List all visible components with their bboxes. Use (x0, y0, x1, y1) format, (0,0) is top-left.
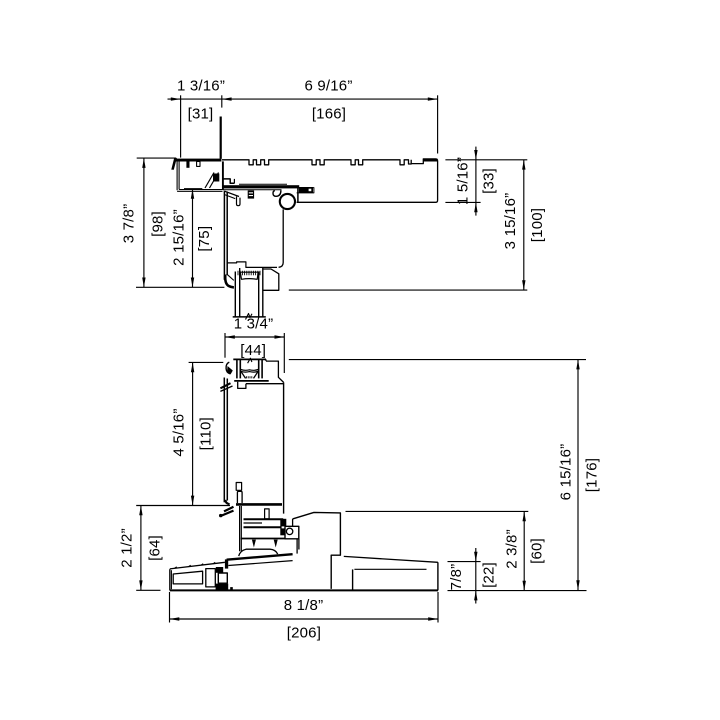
sill deck outer thick (227, 554, 293, 560)
arrow down at (140.9,590.2) (139, 580, 142, 590)
glass pane 2 (two faces) (258, 272, 260, 317)
leaf glazing box right (266, 361, 284, 382)
arrow right at (284.3,337) (275, 335, 285, 338)
arrow down at (192.6,505.4) (191, 496, 194, 506)
roller bar bottom thick (244, 526, 284, 528)
track bar thin bottom line (223, 189, 282, 191)
glass pane 1 column (236, 359, 238, 378)
arrow up at (475.8,590.6) (474, 591, 477, 601)
track hump (239, 549, 278, 556)
nose cavity 2 (206, 569, 216, 587)
fitting outline extension (297, 188, 314, 193)
connector vertical x297.9 (297, 188, 299, 202)
sill nose left edge double (169, 569, 171, 590)
dim 3 7/8 vertical x143.9 (143, 158, 145, 287)
svg-text:4 5/16”: 4 5/16” (170, 408, 187, 456)
arrow right at (438,619) (428, 617, 438, 620)
arrow up at (578,359.6) (576, 360, 579, 370)
sill nose top slope (170, 562, 225, 569)
leaf spring block (dark) (248, 190, 254, 198)
leaf bottom left cap curve (225, 500, 229, 504)
glazing bead box (263, 269, 278, 290)
extension line x180.6 (180, 95, 182, 157)
track dark mass lower (216, 584, 229, 590)
left main line y158.1 (137, 157, 176, 159)
svg-text:[98]: [98] (149, 211, 166, 237)
leaf bottom fin 1 (224, 507, 234, 512)
arrow right at (437.6,99.1) (428, 97, 438, 100)
hook curl (226, 362, 230, 374)
track white box (218, 573, 227, 583)
bolt circle (286, 528, 292, 534)
leaf bottom gasket (thick curve) (225, 275, 234, 288)
arrow down at (475.8,561.6) (474, 552, 477, 562)
svg-text:[64]: [64] (146, 535, 163, 561)
frame fin (diagonal) (171, 158, 177, 170)
hook flap diagonal thick (220, 383, 230, 388)
svg-text:[75]: [75] (196, 226, 213, 252)
chamber notch (238, 382, 246, 389)
arrow down at (578,590.1) (576, 580, 579, 590)
head plate with notches (222, 160, 411, 165)
arrow up at (475.9,202.4) (474, 202, 477, 212)
svg-text:[166]: [166] (312, 105, 346, 122)
arrow left at (221.8,99.1) (222, 97, 232, 100)
svg-text:[33]: [33] (481, 168, 498, 194)
arrow down at (143.9,287.3) (142, 278, 145, 288)
head plate shallow notch + raised right end (297, 159, 438, 202)
frame C-channel left wall (176, 161, 178, 190)
glass edge box above slot (236, 483, 241, 491)
arrow up at (192.5,189) (191, 189, 194, 199)
ext line x169.5 bottom (169, 592, 171, 623)
fitting notch (white) (309, 189, 312, 192)
track tick (230, 587, 233, 591)
svg-text:6 15/16”: 6 15/16” (557, 444, 574, 501)
tooth V right (274, 540, 278, 548)
fitting bar (filled) (299, 187, 313, 193)
arrow left at (169.5,619) (170, 617, 180, 620)
leaf bottom fin 2 (221, 511, 234, 516)
screen leaf left edge upper (292, 519, 294, 527)
arrow left at (225,337) (225, 335, 235, 338)
dim 2 3/8 vertical x524.2 (523, 511, 525, 590)
glazing wedge between panes (240, 272, 258, 279)
hook flap diagonal thin (220, 386, 232, 391)
svg-text:3 15/16”: 3 15/16” (502, 193, 519, 250)
screen leaf outline (293, 512, 341, 589)
bottom ext line left y287.3 (136, 286, 224, 288)
dim 4 5/16 vertical x192.6 (192, 362, 194, 505)
glide curl hook (273, 190, 281, 196)
ext line y159.8 right (445, 159, 527, 161)
leaf bottom cap thick (236, 503, 282, 506)
ext line y511.4 (346, 510, 529, 512)
arrow up at (140.9,505.5) (139, 506, 142, 516)
leaf left edge double (223, 378, 225, 503)
svg-text:1 3/16”: 1 3/16” (177, 77, 225, 94)
head plate raised end band (dark) (423, 159, 437, 162)
leaf bottom rail step (227, 262, 277, 268)
leaf right edge x283 (279, 209, 284, 267)
setting block walls (241, 372, 245, 379)
svg-text:[44]: [44] (240, 342, 266, 359)
frame top bar (filled) (175, 159, 221, 162)
tooth V left (252, 540, 256, 548)
svg-text:1 3/4”: 1 3/4” (234, 315, 274, 332)
glide roller circle (280, 194, 295, 209)
svg-text:[110]: [110] (197, 417, 214, 450)
leaf right edge (283, 382, 285, 513)
dim 2 15/16 vertical x192.5 (192, 189, 194, 287)
nose serration ticks (175, 562, 216, 568)
svg-text:2 15/16”: 2 15/16” (171, 209, 188, 266)
screen leaf left edge lower (296, 539, 298, 554)
chamber top line (246, 383, 283, 385)
bolt box tail (298, 539, 300, 550)
dim 1 3/4 horizontal y337 (225, 336, 284, 338)
leaf top bracket diagonal (225, 191, 239, 196)
svg-text:[100]: [100] (529, 208, 546, 242)
svg-text:[60]: [60] (529, 538, 546, 564)
frame inner vertical at x222.9 (222, 161, 224, 190)
ext line y590.6 right (448, 590, 587, 592)
dim 2 1/2 vertical x140.9 (140, 506, 142, 591)
roller housing left edge double (239, 506, 241, 551)
sill right edge (437, 562, 439, 590)
leaf bottom drainage slot (237, 491, 242, 503)
arrow down at (523.8,290.1) (522, 280, 525, 290)
track dark mass upper (216, 567, 223, 573)
svg-text:3 7/8”: 3 7/8” (120, 204, 137, 244)
ext line y561.6 (448, 561, 481, 563)
arrow down at (475.9,159.8) (474, 150, 477, 160)
arrow down at (524.2,590.6) (523, 581, 526, 591)
ext line y362.4 (189, 361, 224, 363)
svg-text:[206]: [206] (287, 624, 321, 641)
track base line (241, 538, 298, 540)
dim 1 5/16 vertical x475.9 (475, 147, 477, 216)
roller bar top thick (244, 518, 284, 520)
glazing hatch dashes (238, 271, 260, 275)
ext line y188.7 (184, 188, 202, 190)
tick at x221.8 (221, 95, 223, 107)
glass break zigzag top (248, 358, 252, 363)
keeper block dark (280, 519, 286, 536)
arrow right at (180.6,99.1) (171, 97, 181, 100)
frame tooth (dark nub) (186, 161, 189, 167)
svg-text:[22]: [22] (480, 562, 497, 588)
screen channel web (352, 569, 354, 590)
top dim line 1 3/16 / 6 9/16 (168, 98, 438, 100)
dim 7/8 vertical x475.8 (475, 548, 477, 604)
nose cavity 1 (173, 571, 202, 584)
frame hatch diagonals (205, 173, 214, 189)
arrow up at (523.8,159.8) (522, 160, 525, 170)
svg-text:8 1/8”: 8 1/8” (284, 597, 324, 614)
glazing channel bottom thick (234, 380, 269, 382)
roller bar inner thin (244, 522, 263, 524)
leaf left edge (double) (223, 191, 225, 280)
ext line x284.3 for [44] (283, 333, 285, 373)
svg-text:2 1/2”: 2 1/2” (118, 528, 135, 568)
ext line y590.3 left (136, 589, 160, 591)
dim 6 15/16 vertical x578 (577, 360, 579, 590)
glazing seam wavy lines (241, 369, 258, 372)
ext line x438 bottom (437, 592, 439, 623)
sill chamber line (354, 568, 426, 570)
svg-text:6 9/16”: 6 9/16” (304, 77, 352, 94)
long line y290.1 (289, 289, 528, 291)
frame lip step (223, 179, 235, 183)
extension line x437.6 (437, 95, 439, 153)
arrow up at (192.6,362.4) (191, 362, 194, 372)
glass pane 2 column (258, 359, 260, 378)
svg-text:1 5/16”: 1 5/16” (454, 157, 471, 205)
sill bottom thick (170, 589, 438, 591)
glass cut line (233, 316, 266, 318)
ext line y202.4 (445, 201, 480, 203)
frame C-channel bottom wall (177, 190, 222, 192)
glass break zigzag (246, 314, 253, 320)
track bar (thick filled) (223, 185, 299, 188)
bolt housing box (285, 526, 299, 539)
ext line y505.5 (136, 505, 230, 507)
dim 3 15/16 vertical x523.8 (523, 160, 525, 290)
sill deck step (dark) (225, 559, 228, 568)
roller clip tab (265, 509, 270, 519)
leaf top hook channel (237, 196, 241, 205)
svg-text:2 3/8”: 2 3/8” (503, 529, 520, 569)
sill slope right (344, 556, 438, 562)
dim 8 1/8 horizontal y619 (170, 618, 439, 620)
wall edge thick x220.7 (220, 117, 222, 159)
sill deck inner thin (228, 561, 292, 566)
long line y359.6 (289, 359, 586, 361)
glass pane 1 (two faces) (234, 272, 236, 317)
arrow up at (143.9,158.1) (142, 158, 145, 168)
hook dark wedge (227, 366, 233, 375)
frame tooth (outline) (197, 161, 200, 166)
leaf top edge (233, 358, 266, 360)
track bar thin top line (239, 183, 287, 185)
setting block hatch (246, 376, 251, 378)
arrow down at (192.5,287.3) (191, 278, 194, 288)
svg-text:7/8”: 7/8” (448, 564, 465, 591)
svg-text:[31]: [31] (188, 105, 214, 122)
ext line x225 for [44] (224, 333, 226, 358)
frame hatch blob (213, 174, 219, 182)
arrow up at (524.2,511.4) (523, 511, 526, 521)
svg-text:[176]: [176] (583, 458, 600, 492)
fin tip blob (219, 514, 222, 517)
